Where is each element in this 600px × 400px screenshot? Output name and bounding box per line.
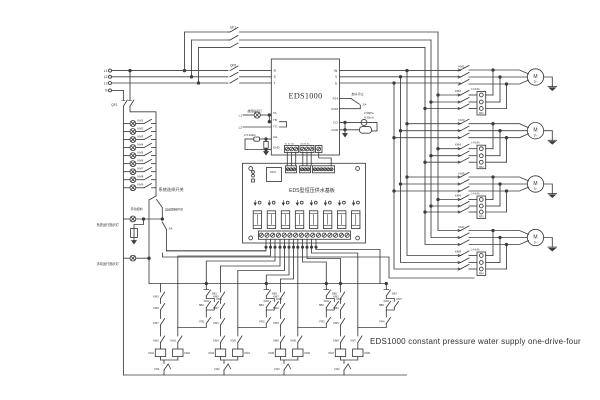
wire control g3 coil1 [292, 246, 294, 248]
svg-text:1.4-8.8A: 1.4-8.8A [471, 142, 480, 145]
contactor KM8 pole 3 [458, 268, 460, 270]
mounting hole bottom-right [356, 236, 360, 240]
wire inv tap g2 r1 [407, 123, 461, 125]
wire SA drop [167, 230, 267, 251]
wire branch R g1 [205, 284, 207, 290]
coil KM6 [293, 349, 303, 357]
junction pot bottom [265, 148, 268, 151]
contact KM8 interlock g4 [341, 336, 345, 343]
svg-text:KM6: KM6 [304, 351, 310, 355]
wire merge column g1 r3 [506, 84, 508, 109]
svg-text:FR2: FR2 [259, 319, 265, 323]
svg-text:KM3: KM3 [230, 338, 236, 342]
terminal J3-1 [313, 168, 316, 171]
wire mains tap g3 r2 [431, 205, 461, 207]
svg-text:EDS1000: EDS1000 [289, 92, 323, 101]
junction control bus g1 [205, 282, 208, 285]
ground fuse branch [133, 238, 135, 241]
wire motor lead 1 g1 [493, 70, 529, 74]
wire branch R g3 [325, 284, 327, 290]
contact FR2 NC [224, 364, 228, 370]
wire mains tap g2 r1 [438, 148, 461, 150]
svg-text:KM1: KM1 [273, 306, 279, 310]
junction mains tap g1 r2 [430, 101, 433, 104]
svg-text:FR3: FR3 [479, 215, 484, 219]
wire control g1 aux [274, 246, 276, 248]
wire motor lead 1 g4 [493, 231, 529, 235]
relay K8 [352, 211, 360, 229]
svg-text:3~: 3~ [534, 134, 538, 138]
wire right bus jog [149, 196, 156, 284]
overload relay FR3 element 1 [479, 198, 483, 202]
wire FR4 out 2 [486, 262, 500, 264]
svg-text:FR3: FR3 [319, 319, 325, 323]
wire motor lead 3 g2 [507, 134, 529, 138]
lamp HL10 run indicator [123, 218, 130, 220]
contactor KM3 pole 2 [458, 130, 460, 132]
wire control line 2 [163, 253, 475, 278]
svg-text:KM8: KM8 [138, 175, 144, 179]
coil KM8 [353, 349, 363, 357]
svg-text:系统选择开关: 系统选择开关 [159, 186, 184, 193]
contact KM3 select [136, 139, 144, 141]
button SB2 start [204, 300, 209, 302]
wire control bus [149, 283, 386, 285]
svg-text:3~: 3~ [534, 240, 538, 244]
contact KM7 select [136, 171, 144, 173]
wire mains bus 2 [431, 40, 461, 238]
overload relay FR4 element 1 [479, 254, 483, 258]
svg-text:KM3: KM3 [333, 306, 339, 310]
overload relay FR2 body [477, 145, 486, 169]
wire inverter bus 1 [407, 71, 461, 256]
led indicator D6 [324, 201, 326, 205]
wire ladder left bus [122, 106, 124, 375]
overload relay FR1 body [477, 92, 486, 116]
svg-text:TA: TA [273, 111, 277, 115]
switch SA manual [162, 222, 166, 230]
svg-text:KM4: KM4 [213, 338, 219, 342]
led indicator D3 [282, 201, 284, 205]
wire inverter bus 3 [394, 83, 461, 269]
overload relay FR1 element 2 [479, 100, 483, 104]
junction inverter bus 3 [393, 82, 396, 85]
contact KM5 interlock g2 [221, 292, 225, 299]
wire branch M g2 [237, 284, 239, 329]
contactor KM7 pole 2 [458, 236, 460, 238]
junction L1 bypass tap [183, 69, 186, 72]
wire TA-TB tie [268, 115, 270, 122]
svg-text:启动·停止: 启动·停止 [352, 92, 364, 96]
wire control g4 aux [315, 246, 317, 248]
svg-text:V: V [335, 75, 338, 79]
wire merge column g4 r1 [492, 231, 494, 256]
wire mains bus 3 [425, 48, 461, 245]
svg-text:KM6: KM6 [273, 338, 279, 342]
wire merge column g3 r1 [492, 177, 494, 200]
control board PCB body [243, 163, 366, 243]
contact KM2 select [136, 131, 144, 133]
contactor KM1 pole 3 [458, 83, 460, 85]
terminal J4-12 [322, 233, 326, 237]
wire merge column g2 r2 [499, 131, 501, 156]
terminal J4-7 [294, 233, 298, 237]
led indicator D5 [310, 201, 312, 205]
contact KM7 interlock g2 [221, 304, 225, 311]
contact KM5 select [136, 155, 144, 157]
svg-text:KM5: KM5 [213, 294, 219, 298]
svg-text:1.4-8.8A: 1.4-8.8A [471, 88, 480, 91]
junction TA-TB tie a [268, 114, 271, 117]
contact KM7 seal-in [386, 299, 394, 302]
svg-text:KM4: KM4 [244, 351, 250, 355]
terminal block J3 [313, 166, 335, 173]
junction inv tap g3 r3 [393, 190, 396, 193]
svg-text:EDS型恒压供水基板: EDS型恒压供水基板 [289, 187, 335, 194]
contact KM1 select [136, 123, 144, 125]
contactor KM8 pole 1 [458, 254, 460, 256]
overload relay FR4 body [477, 252, 486, 276]
wire FR3 out 1 [486, 199, 493, 201]
contact KM3 aux g2 [238, 336, 242, 343]
junction control bus g4 [339, 282, 342, 285]
svg-text:CCI: CCI [333, 121, 338, 125]
wire L2 to TC [243, 126, 271, 128]
terminal J3-2 [317, 168, 320, 171]
contact KM1 interlock g3 [281, 304, 285, 311]
contactor KM2 pole 3 [458, 107, 460, 109]
terminal X3-1 [317, 147, 321, 151]
breaker UF1 pole 1 [228, 31, 230, 33]
contact KM5 interlock g4 [341, 319, 345, 326]
svg-text:EDS1000 constant pressure wate: EDS1000 constant pressure water supply o… [370, 337, 581, 346]
lamp HL9 system-select indicator [123, 187, 130, 189]
wire control g4 coil2 [310, 246, 312, 248]
wire inverter-board link [295, 153, 297, 166]
sensor P pressure transmitter [361, 119, 367, 125]
junction AI1 pot [265, 138, 268, 141]
wire inverter output V row [340, 76, 461, 78]
svg-text:FR1: FR1 [154, 367, 160, 371]
svg-text:KM7: KM7 [153, 321, 159, 325]
svg-text:S: S [274, 75, 276, 79]
wire mains tap g3 r3 [425, 211, 461, 213]
wire branch L g3 [280, 284, 282, 293]
svg-text:KM4: KM4 [455, 143, 461, 147]
terminal J4-13 [328, 233, 332, 237]
contact KM3 interlock g1 [161, 292, 165, 299]
terminal J4-16 [345, 233, 349, 237]
svg-text:FR1: FR1 [479, 111, 484, 115]
terminal J4-2 [265, 233, 269, 237]
contact KM1 aux g1 [178, 336, 182, 343]
svg-text:3~: 3~ [534, 187, 538, 191]
junction GND shield [344, 129, 347, 132]
cpu U2 box [267, 168, 282, 182]
junction mains tap g2 r1 [437, 147, 440, 150]
svg-text:KM5: KM5 [153, 306, 159, 310]
contactor KM2 pole 1 [458, 94, 460, 96]
wire SA to COM [340, 105, 361, 109]
mounting hole top-left [249, 167, 253, 171]
svg-text:W: W [334, 69, 337, 73]
overload relay FR2 element 2 [479, 154, 483, 158]
svg-text:FR3: FR3 [274, 367, 280, 371]
svg-text:KM8: KM8 [333, 338, 339, 342]
wire merge column g3 r2 [499, 184, 501, 206]
contactor KM5 pole 2 [458, 183, 460, 185]
junction inverter bus 1 [406, 69, 409, 72]
wire bypass riser L1 [184, 32, 186, 71]
relay K4 [295, 211, 303, 229]
svg-text:KM1: KM1 [170, 338, 176, 342]
wire shield tie [344, 122, 346, 129]
svg-text:KM1: KM1 [148, 351, 154, 355]
wire mains bus 1 [438, 32, 461, 231]
contact FR aux g2 [266, 318, 270, 324]
svg-text:系统运行指示灯: 系统运行指示灯 [97, 222, 120, 227]
wire motor lead 2 g2 [500, 130, 527, 132]
svg-text:2.5-10kΩ: 2.5-10kΩ [244, 133, 255, 137]
svg-text:FR4: FR4 [479, 272, 484, 276]
lamp HL5 system-select indicator [123, 155, 130, 157]
jumper TB-TC inside [280, 122, 287, 127]
wire GND left pin [264, 149, 272, 151]
wire AI1 [266, 138, 271, 140]
switch SA run [351, 99, 360, 105]
wire branch R jog g1 [178, 324, 207, 328]
coil KM7 [335, 349, 345, 357]
svg-text:KM3: KM3 [208, 351, 214, 355]
contact KM3 interlock g4 [341, 304, 345, 311]
svg-text:FR2: FR2 [479, 165, 484, 169]
svg-text:SA: SA [363, 103, 367, 107]
wire branch L g2 [220, 284, 222, 293]
wire merge column g3 r3 [506, 191, 508, 212]
terminal J4-10 [311, 233, 315, 237]
junction inv tap g2 r1 [406, 122, 409, 125]
breaker QF5 pole 3 [230, 79, 238, 84]
svg-text:GND: GND [273, 146, 281, 150]
coil KM2 [173, 349, 183, 357]
svg-text:SB7: SB7 [392, 292, 398, 296]
wire FR2 out 3 [486, 161, 507, 163]
wire motor lead 1 g2 [493, 124, 529, 128]
svg-text:P24: P24 [333, 97, 339, 101]
contactor KM7 pole 3 [458, 243, 460, 245]
terminal X1-2 [290, 147, 294, 151]
svg-text:SB6: SB6 [319, 303, 325, 307]
wire branch R jog g2 [238, 324, 266, 328]
wire GND right pin [340, 129, 360, 131]
terminal J4-1 [259, 233, 263, 237]
contactor KM5 pole 3 [458, 190, 460, 192]
breaker QF5 pole 1 [230, 66, 238, 71]
contact KM4 select [136, 147, 144, 149]
contactor KM6 pole 2 [458, 205, 460, 207]
svg-text:KM7: KM7 [350, 338, 356, 342]
contactor KM3 pole 3 [458, 137, 460, 139]
svg-text:L3: L3 [104, 81, 108, 85]
contactor KM6 pole 1 [458, 198, 460, 200]
wire N to QF1 [112, 89, 124, 91]
svg-text:自动控制开关: 自动控制开关 [165, 207, 183, 212]
contactor KM3 pole 1 [458, 123, 460, 125]
svg-text:KM2: KM2 [455, 89, 461, 93]
ground motor M2 [544, 131, 553, 141]
svg-text:SB8: SB8 [379, 303, 385, 307]
junction CCI shield [344, 121, 347, 124]
wire FR2 out 2 [486, 155, 500, 157]
svg-text:KM5: KM5 [138, 150, 144, 154]
terminal X2-1 [301, 147, 305, 151]
relay K7 [338, 211, 346, 229]
wire inverter-board link [291, 153, 293, 166]
svg-text:R: R [274, 69, 277, 73]
terminal J3-6 [330, 168, 333, 171]
motor M2 [527, 123, 543, 139]
wire branch M g4 [357, 284, 359, 329]
wire control g4 coil1 [306, 246, 308, 248]
svg-text:4-20mA: 4-20mA [364, 116, 374, 120]
svg-text:KM5: KM5 [333, 321, 339, 325]
contactor KM1 pole 2 [458, 76, 460, 78]
button SB1 stop [204, 289, 209, 291]
wire motor lead 3 g3 [507, 187, 529, 191]
overload relay FR1 element 1 [479, 93, 483, 97]
wire motor lead 1 g3 [493, 177, 529, 181]
svg-text:SB2: SB2 [199, 303, 205, 307]
svg-text:T: T [274, 81, 276, 85]
breaker UF1 pole 3 [228, 47, 230, 49]
coil KM3 [215, 349, 225, 357]
contact KM7 aux g4 [358, 336, 362, 343]
board left icon b [252, 174, 255, 177]
wire inverter bus 2 [401, 77, 461, 263]
wire merge column g2 r1 [492, 124, 494, 149]
wire FR1 out 3 [486, 108, 507, 110]
wire mains tap g2 r2 [431, 155, 461, 157]
contact KM4 interlock g2 [221, 336, 225, 343]
svg-text:KM7: KM7 [213, 306, 219, 310]
terminal J2-3 [307, 168, 310, 171]
svg-text:GND: GND [331, 128, 339, 132]
lamp HL8 system-select indicator [123, 179, 130, 181]
wire inverter-board link [306, 153, 308, 166]
wire inv tap g3 r3 [394, 190, 461, 192]
contact KM2 interlock g1 [161, 336, 165, 343]
svg-text:KM7: KM7 [328, 351, 334, 355]
contact KM3 interlock g3 [281, 319, 285, 326]
overload relay FR3 element 2 [479, 204, 483, 208]
wire merge column g4 r2 [499, 238, 501, 263]
ground motor M4 [544, 238, 553, 248]
junction mains tap g3 r2 [430, 205, 433, 208]
terminal J2-1 [300, 168, 303, 171]
svg-text:KM2: KM2 [138, 126, 144, 130]
breaker UF1 pole 2 [228, 39, 230, 41]
overload relay FR1 element 3 [479, 107, 483, 111]
led indicator D7 [339, 201, 341, 205]
contact FR aux g3 [326, 318, 330, 324]
svg-text:QF1: QF1 [111, 103, 117, 107]
ground motor M1 [544, 77, 553, 87]
terminal X2-2 [305, 147, 309, 151]
svg-text:KM5: KM5 [268, 351, 274, 355]
svg-text:1.4-8.8A: 1.4-8.8A [471, 248, 480, 251]
svg-text:N: N [105, 89, 108, 93]
terminal block J1 [286, 166, 297, 173]
wire inv tap g2 r3 [394, 137, 461, 139]
wire inverter-board link [302, 153, 304, 166]
junction mains tap g2 r3 [424, 161, 427, 164]
terminal J4-15 [339, 233, 343, 237]
svg-text:KM3: KM3 [153, 294, 159, 298]
wire FR1 out 2 [486, 101, 500, 103]
contactor KM8 pole 2 [458, 261, 460, 263]
wire inverter-board link pe [319, 153, 332, 166]
svg-text:KM1: KM1 [333, 294, 339, 298]
svg-text:SA: SA [169, 227, 173, 231]
contact KM9 select [136, 187, 144, 189]
svg-text:FR2: FR2 [214, 367, 220, 371]
svg-text:X4 X5 X6: X4 X5 X6 [300, 144, 310, 146]
svg-text:KM4: KM4 [138, 142, 144, 146]
contact KM8 select [136, 179, 144, 181]
svg-text:手动运行指示灯: 手动运行指示灯 [97, 261, 120, 266]
wire mains tap g1 r1 [438, 94, 461, 96]
svg-text:TC: TC [273, 124, 278, 128]
svg-text:KM9: KM9 [138, 183, 144, 187]
svg-text:KM2: KM2 [153, 338, 159, 342]
wire control g1 coil2 [269, 246, 271, 248]
button SB8 start [384, 300, 389, 302]
fuse FU drop [134, 219, 144, 229]
terminal J4-3 [271, 233, 275, 237]
contactor KM1 pole 1 [458, 69, 460, 71]
junction lamp row b [161, 218, 164, 221]
wire pot loop [245, 139, 264, 150]
wire FR3 out 3 [486, 211, 507, 213]
contact FR4 NC [344, 364, 348, 370]
contact KM5 seal-in [326, 299, 334, 302]
wire QF1 to ladder right bus [130, 106, 156, 196]
wire P24 [340, 98, 352, 100]
wire inverter-board link [310, 153, 312, 166]
contact KM6 interlock g3 [281, 336, 285, 343]
svg-text:COM: COM [331, 107, 339, 111]
terminal X2-3 [309, 147, 313, 151]
coil KM4 [233, 349, 243, 357]
svg-text:FR4: FR4 [379, 319, 385, 323]
svg-text:KM2: KM2 [184, 351, 190, 355]
junction mains tap g1 r3 [424, 107, 427, 110]
wire inv tap g3 r1 [407, 176, 461, 178]
contact KM7 interlock g3 [281, 292, 285, 299]
lamp HL7 system-select indicator [123, 171, 130, 173]
junction mains tap g1 r1 [437, 94, 440, 97]
contact FR3 NC [284, 364, 288, 370]
wire branch L g1 [160, 284, 162, 293]
button SB5 stop [324, 289, 329, 291]
wire branch R g2 [265, 284, 267, 290]
svg-text:L2: L2 [239, 125, 243, 129]
wire merge column g1 r2 [499, 77, 501, 102]
fuse FU [131, 229, 138, 238]
wire L1 bus [112, 70, 229, 72]
wire motor lead 3 g1 [507, 80, 529, 84]
wire motor lead 2 g3 [500, 183, 527, 185]
